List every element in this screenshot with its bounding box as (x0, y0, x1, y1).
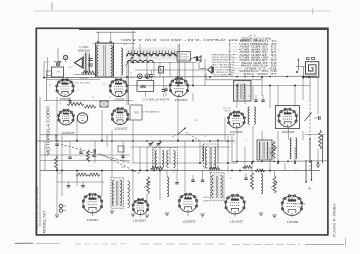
svg-text:12SA7GT: 12SA7GT (174, 98, 187, 102)
AC interlock plug box (52, 67, 64, 77)
tone control (271, 176, 278, 193)
svg-text:OUTPUT: OUTPUT (79, 76, 88, 78)
frame top darker segment (79, 28, 328, 30)
wire main rail y77 (44, 76, 317, 78)
ground symbols (55, 165, 320, 218)
wire rail y155 (40, 154, 130, 156)
svg-text:50,000: 50,000 (202, 196, 209, 198)
svg-text:C9: C9 (103, 82, 105, 84)
adjacent page edge (faint top line) (34, 10, 330, 12)
shade speaker field (83, 52, 90, 73)
block capacitor (100, 101, 108, 107)
shade output transformer (96, 44, 113, 77)
small left coil (202, 146, 204, 161)
I.F. transformer T3 (211, 173, 225, 201)
svg-text:B+: B+ (307, 187, 311, 191)
svg-text:12SK7GT: 12SK7GT (229, 130, 242, 134)
screen resistors R5 R6 (76, 173, 100, 176)
svg-text:OHMS: OHMS (203, 199, 210, 201)
svg-text:FIELD: FIELD (91, 42, 98, 44)
wire verticals (bottom) (57, 160, 306, 217)
speaker leads (74, 75, 96, 79)
plate resistor (151, 167, 164, 170)
tube shield box (276, 106, 300, 129)
label L7 (inverted) (123, 43, 126, 45)
grid leak resistor (209, 167, 220, 170)
svg-text:4- 6T: 4- 6T (247, 34, 256, 36)
oscillator padder coil (128, 181, 130, 208)
svg-text:35Z5GT: 35Z5GT (114, 98, 125, 102)
value smudges (68, 65, 299, 178)
tuning trimmers center (148, 142, 162, 148)
voltage note text (inverted) (211, 53, 235, 76)
middle capacitors (55, 144, 124, 158)
speaker connect wire (199, 62, 207, 69)
wire rail y70 (135, 69, 207, 71)
label 12SK7 (inverted) (133, 219, 146, 223)
wire rail y43.5 (100, 43, 135, 45)
on-off switch knob (56, 63, 59, 66)
tube V6 35Z5GT (rectifier) (109, 79, 128, 97)
resistor on plate rail (82, 71, 96, 74)
cathode bypass capacitors (67, 182, 85, 187)
registration tick top-right (312, 8, 315, 14)
wire rail y135 (40, 134, 235, 136)
antenna transformer box (234, 81, 252, 102)
svg-text:470M: 470M (294, 168, 299, 170)
tone capacitor left (68, 97, 71, 102)
label align (inverted) (141, 97, 169, 100)
plate load resistor (243, 166, 253, 169)
svg-text:25: 25 (49, 83, 51, 85)
extra middle verticals (45, 77, 310, 192)
shade IF T2 (258, 141, 272, 160)
label 35Z5GT (inverted) (114, 98, 125, 102)
svg-text:USE 25L6: USE 25L6 (179, 53, 188, 55)
wire switch drop (57, 48, 59, 63)
antenna arrow (296, 59, 299, 73)
svg-text:C1- TUNING COND. ---- 1: C1- TUNING COND. ---- 1 (227, 39, 276, 42)
svg-text:SW: SW (68, 65, 71, 67)
svg-text:6.3V: 6.3V (145, 78, 150, 80)
label 12A8 (inverted) (87, 218, 99, 222)
I.F. transformer T2 (257, 140, 272, 160)
oscillator trim box (137, 81, 154, 97)
cathode resistor (251, 173, 254, 190)
svg-text:12SK7GT: 12SK7GT (133, 219, 146, 223)
svg-text:KC ADJ.: KC ADJ. (223, 109, 230, 112)
svg-text:PAGE 14-15 MOTOROLA: PAGE 14-15 MOTOROLA (35, 186, 39, 234)
svg-text:C5- .01 MFD 400V ---- 2: C5- .01 MFD 400V ---- 2 (227, 50, 276, 53)
svg-text:OSC. 600: OSC. 600 (223, 107, 231, 109)
wire rail y79.5 (46, 79, 100, 81)
shade ant transformer (234, 81, 251, 101)
1st I.F. transformer box (153, 148, 178, 171)
tube V3b 12SQ7 (178, 193, 198, 212)
bleeder resistor (319, 130, 322, 149)
B plus supply arrows (305, 160, 312, 183)
wire left vertical rail (47, 70, 52, 101)
margin text PAGE 14-15 MOTOROLA (35, 186, 39, 234)
spare capacitor (162, 76, 166, 97)
cap pair left of transformer (88, 59, 93, 67)
svg-text:WITH 1000 OHM PER: WITH 1000 OHM PER (211, 61, 235, 63)
schematic border frame (36, 28, 328, 235)
svg-text:MOTOROLA CORP.: MOTOROLA CORP. (45, 106, 50, 156)
svg-text:8: 8 (77, 88, 78, 90)
wire rail y62 (130, 62, 197, 64)
coupling capacitors (175, 175, 204, 184)
label 117V (inverted) (43, 60, 49, 62)
rail resistor right (255, 169, 265, 172)
small transformer block (159, 67, 164, 74)
svg-text:C2- TRIMMER ASSY ---- 2: C2- TRIMMER ASSY ---- 2 (227, 42, 276, 45)
svg-text:5000 CY.: 5000 CY. (78, 45, 88, 48)
svg-text:12A8GT: 12A8GT (87, 218, 99, 222)
svg-text:117V.: 117V. (43, 60, 49, 62)
wire rail y85.5 (127, 85, 310, 87)
oscillator shield box (130, 105, 142, 120)
interstage windings (248, 107, 255, 124)
label 12SA7 (inverted) (174, 98, 187, 102)
shade choke mass (126, 48, 176, 61)
margin text MODEL 62T (42, 210, 46, 234)
line polarity arrow (54, 61, 62, 63)
svg-text:16: 16 (92, 95, 94, 97)
label B+ (inverted) (307, 187, 311, 191)
svg-text:MODEL 62T: MODEL 62T (42, 210, 46, 234)
note box with text (177, 52, 191, 62)
label 50L6 b (inverted) (287, 220, 298, 224)
svg-text:SPEAKER: SPEAKER (78, 48, 90, 52)
tube V2b 12SK7 (132, 199, 149, 215)
svg-text:FROM SOCKET PRONG: FROM SOCKET PRONG (211, 56, 235, 58)
tube V5 50L6GT (output) (56, 79, 75, 97)
svg-text:30: 30 (109, 95, 111, 97)
parts list table (printed inverted) (227, 34, 277, 75)
svg-text:©John F. Rider: ©John F. Rider (332, 202, 336, 237)
svg-text:A.C.: A.C. (55, 70, 60, 73)
label 12SK7 (inverted) (229, 130, 242, 134)
I.F. transformer T1 (111, 178, 124, 209)
switch dashed shaft (309, 100, 311, 170)
speaker field coil (83, 53, 89, 74)
svg-text:12SK7GT: 12SK7GT (114, 126, 127, 130)
double vertical x127 (127, 62, 129, 105)
svg-text:50L6GT: 50L6GT (287, 220, 298, 224)
registration tick top-left (51, 3, 53, 10)
tube V2 12SK7 (I.F.) (227, 111, 245, 128)
label 12SK7 (inverted) (114, 126, 127, 130)
svg-text:BEAM POW: BEAM POW (294, 202, 305, 205)
osc label rows (inverted) (223, 107, 231, 112)
extra caps bottom (191, 173, 247, 181)
label switch on vol (inverted) (59, 81, 90, 83)
bottom left resistor (55, 156, 58, 170)
wire ground rail y170.5 (40, 170, 320, 172)
wire verticals (middle) (57, 62, 228, 171)
svg-text:C4- 100 MMF MICA ---- 3: C4- 100 MMF MICA ---- 3 (227, 47, 276, 50)
margin text MOTOROLA CORP. (45, 106, 50, 156)
wire rail y141 (37, 140, 235, 142)
trimmer capacitor row (254, 95, 264, 101)
wire verticals (right) (237, 77, 318, 171)
grid capacitor (164, 85, 167, 96)
phono pickup icon (208, 66, 214, 73)
alignment note text (printed inverted) (119, 38, 261, 42)
label 50L6GT (inverted) (59, 97, 70, 101)
svg-text:22M: 22M (121, 165, 125, 167)
svg-text:C3- .05 MFD 200V ---- 1: C3- .05 MFD 200V ---- 1 (227, 45, 276, 48)
wire rail y147 (130, 146, 230, 148)
interstage coil (167, 177, 169, 197)
avc resistor (144, 177, 151, 194)
tube V7 12SK7 (111, 108, 129, 125)
svg-text:ALIGN AT 600 K.C.: ALIGN AT 600 K.C. (141, 97, 169, 100)
label 12SQ7 (inverted) (61, 131, 75, 135)
audio pot arrow (55, 134, 57, 141)
wire rail y160.5 (40, 160, 130, 162)
tube V4 12SQ7 (1st audio) (58, 109, 75, 125)
wire rail y100.5 (44, 100, 133, 102)
label speaker field (inverted) (142, 110, 160, 113)
wave band switch arrow (305, 113, 312, 122)
wire segment y162 (232, 136, 327, 162)
svg-text:12SK7GT: 12SK7GT (230, 219, 243, 223)
tube V5b 50L6 (beam power) (281, 195, 303, 216)
label vol cont (inverted) (202, 196, 209, 201)
phono jack circles (59, 204, 66, 212)
small speaker icon (196, 56, 201, 62)
svg-text:12SQ7GT: 12SQ7GT (61, 131, 75, 135)
wire rail y182 (57, 181, 104, 183)
volume control R4 (270, 141, 277, 159)
wave switch arrow center (172, 128, 200, 141)
svg-text:12SQ7GT: 12SQ7GT (182, 219, 196, 223)
grid resistor R8 (84, 105, 96, 108)
wire rail y134.5 right (305, 134, 325, 136)
tube V1 12SA7 (converter) (169, 78, 189, 97)
label 12SQ7 (inverted) (182, 219, 196, 223)
ballast lamp (77, 113, 87, 123)
tuning gang dashed link (61, 145, 141, 175)
loop antenna L1 (305, 57, 319, 77)
svg-text:SWITCH ON VOL. CONT.: SWITCH ON VOL. CONT. (59, 81, 90, 83)
label OSC (inverted) (133, 111, 139, 114)
tube V4b 12SK7 (I.F.) (225, 194, 246, 214)
dial lamp jacks (138, 74, 150, 79)
shade IF T1 (112, 178, 124, 208)
choke core hatching (128, 51, 176, 57)
osc transformer box (204, 144, 219, 168)
fuse circle (63, 55, 67, 62)
wire left verticals cluster (40, 57, 48, 227)
phono arrow (189, 57, 196, 60)
label 12SQ7 (inverted) (281, 130, 295, 134)
svg-text:400: 400 (64, 139, 67, 141)
B plus up arrows (309, 135, 323, 163)
field coil label smudge (inverted) (91, 42, 98, 44)
svg-text:C4: C4 (59, 101, 61, 103)
wire top rail (96, 32, 136, 41)
tube V1b 12A8 (osc-mod) (82, 193, 103, 213)
margin text (c)John F. Rider (332, 202, 336, 237)
detector coil (261, 174, 263, 194)
svg-text:VOLT METER. LINE: VOLT METER. LINE (211, 63, 234, 65)
svg-text:R2: R2 (51, 71, 53, 73)
loop feed wire (296, 66, 306, 79)
speaker horn (75, 58, 83, 68)
label 12SK7 b (inverted) (230, 219, 243, 223)
tube V3 12SQ7 (det-avc) (278, 108, 298, 127)
hum control winding (121, 48, 133, 75)
output transformer box (96, 41, 114, 77)
svg-text:OSC.: OSC. (133, 111, 139, 114)
bottom page edge broken line (15, 238, 346, 247)
coupling resistor R9 (67, 102, 84, 105)
line bypass capacitor (314, 116, 320, 120)
svg-text:250M: 250M (57, 171, 62, 173)
svg-text:L3: L3 (130, 71, 132, 73)
detector coil pair (290, 138, 297, 159)
svg-text:12SQ7GT: 12SQ7GT (281, 130, 295, 134)
label beam power (inverted) (294, 202, 305, 207)
wire verticals (center top) (133, 31, 205, 86)
upper-left smudges (49, 71, 132, 103)
svg-text:SEE PAGE 14-16.: SEE PAGE 14-16. (212, 73, 233, 76)
gang trimmer box (118, 146, 124, 152)
wire rail y163 (132, 162, 237, 164)
wire rail y79.8 right (206, 74, 262, 80)
speaker label (inverted) (78, 45, 90, 53)
svg-text:SUPPLY: SUPPLY (179, 58, 187, 60)
shade IF T3 (211, 173, 224, 200)
filter choke winding (127, 53, 177, 63)
double vertical x178 (179, 44, 181, 86)
padder capacitor (150, 71, 154, 81)
audio caps cluster (57, 139, 95, 173)
